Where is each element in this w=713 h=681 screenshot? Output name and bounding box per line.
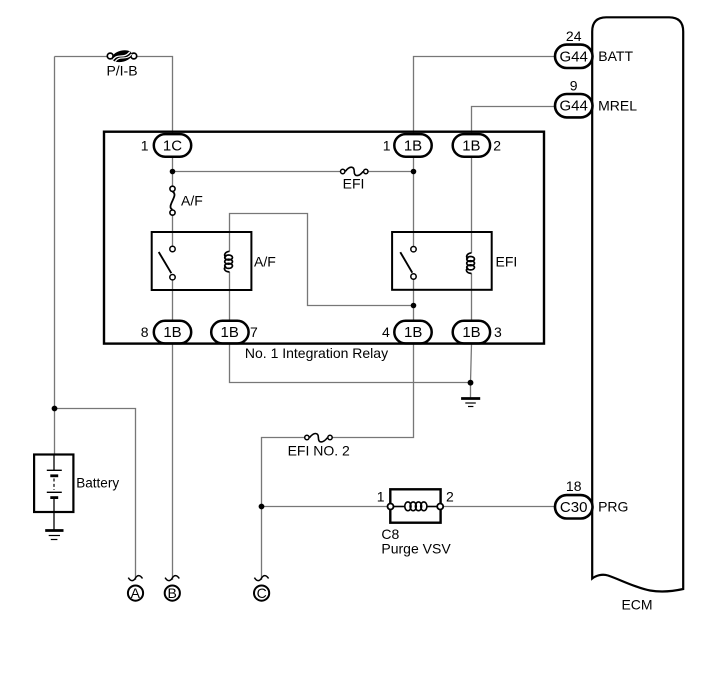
wire P/I-B horizontal feed bbox=[55, 56, 108, 58]
svg-text:9: 9 bbox=[570, 77, 578, 93]
wire pin 1B(7) down and right to ground junction bbox=[230, 344, 471, 383]
svg-text:Battery: Battery bbox=[76, 476, 119, 491]
wire pin 1B(4) down left through EFI NO.2 fuse region bbox=[262, 344, 414, 580]
pin 1B(3) bbox=[453, 321, 502, 344]
svg-text:ECM: ECM bbox=[621, 597, 652, 613]
svg-text:1B: 1B bbox=[404, 324, 422, 341]
svg-text:1: 1 bbox=[383, 138, 391, 154]
svg-text:G44: G44 bbox=[560, 48, 588, 65]
relay A/F coil bbox=[225, 251, 233, 272]
junction node at battery feed bbox=[52, 406, 58, 412]
ECM box bbox=[592, 17, 683, 591]
connector C30 pin 18 PRG bbox=[555, 478, 628, 519]
svg-text:3: 3 bbox=[494, 324, 502, 340]
pin 1B(1) bbox=[383, 134, 432, 157]
svg-text:EFI: EFI bbox=[496, 254, 518, 270]
wire A/F switch to pin 1B(8) bbox=[172, 280, 174, 322]
pin 1B(7) bbox=[211, 321, 258, 344]
wire EFI coil bottom to pin 1B(3) bbox=[471, 273, 473, 322]
svg-text:1B: 1B bbox=[221, 324, 239, 341]
pin 1B(4) bbox=[382, 321, 432, 344]
svg-text:8: 8 bbox=[141, 324, 149, 340]
wire pin 1B(8) down to connector B bbox=[172, 344, 174, 580]
junction node at connector C branch bbox=[259, 504, 265, 510]
wire A/F coil top jog to EFI switch junction bbox=[230, 214, 414, 306]
svg-text:C: C bbox=[257, 585, 267, 601]
ground right bbox=[461, 399, 480, 407]
svg-text:2: 2 bbox=[446, 489, 454, 505]
svg-text:18: 18 bbox=[566, 478, 582, 494]
break squiggle above connector C bbox=[254, 576, 268, 581]
svg-text:BATT: BATT bbox=[598, 48, 633, 64]
svg-text:EFI NO. 2: EFI NO. 2 bbox=[288, 443, 350, 459]
svg-text:1B: 1B bbox=[163, 324, 181, 341]
relay A/F box bbox=[152, 232, 252, 290]
svg-text:1: 1 bbox=[377, 489, 385, 505]
wire BATT from ECM to pin 1B(1) bbox=[414, 57, 556, 136]
wire junction down to A/F fuse bbox=[172, 172, 174, 186]
svg-text:A/F: A/F bbox=[181, 193, 203, 209]
svg-text:2: 2 bbox=[493, 138, 501, 154]
connector A bbox=[128, 585, 143, 601]
svg-text:1C: 1C bbox=[163, 138, 182, 155]
wire A/F coil bottom to pin 1B(7) bbox=[229, 272, 231, 322]
wire battery junction to connector A bbox=[55, 409, 136, 581]
ground battery bbox=[45, 531, 63, 540]
junction node on EFI switch output bbox=[411, 303, 417, 309]
connector C bbox=[254, 585, 269, 601]
purge VSV C8 bbox=[377, 489, 454, 523]
relay A/F switch bbox=[159, 246, 176, 280]
wire pin 1B(3) to ground bbox=[471, 344, 472, 398]
svg-text:1: 1 bbox=[141, 138, 149, 154]
junction node under 1C bbox=[170, 169, 176, 175]
pin 1C bbox=[141, 134, 191, 157]
wire pin 1B(1) down to EFI relay switch bbox=[413, 157, 415, 247]
svg-text:C30: C30 bbox=[560, 499, 588, 516]
svg-text:EFI: EFI bbox=[343, 176, 365, 192]
svg-text:MREL: MREL bbox=[598, 97, 637, 113]
relay EFI switch bbox=[400, 247, 416, 280]
wire MREL from ECM to pin 1B(2) bbox=[472, 107, 556, 136]
pin 1B(8) bbox=[141, 321, 191, 344]
svg-text:24: 24 bbox=[566, 28, 582, 44]
wire from fusible link to pin 1C bbox=[137, 57, 173, 136]
svg-text:A: A bbox=[131, 585, 141, 601]
svg-text:B: B bbox=[168, 585, 177, 601]
wire pin 1C to junction bbox=[172, 157, 174, 172]
connector B bbox=[165, 585, 180, 601]
break squiggle above connector B bbox=[165, 576, 179, 581]
relay EFI coil bbox=[467, 253, 475, 274]
connector G44 pin 9 MREL bbox=[555, 77, 637, 117]
relay EFI box bbox=[392, 232, 492, 290]
svg-text:1B: 1B bbox=[462, 138, 480, 155]
break squiggle above connector A bbox=[128, 576, 142, 581]
svg-text:P/I-B: P/I-B bbox=[106, 63, 137, 79]
fuse EFI bbox=[341, 167, 368, 175]
No. 1 Integration Relay box bbox=[104, 132, 544, 344]
pin 1B(2) bbox=[453, 134, 502, 157]
svg-text:7: 7 bbox=[250, 324, 258, 340]
wire pin 1B(2) to EFI relay coil bbox=[471, 157, 473, 253]
wire junction to EFI fuse to junction at 1B(1) line bbox=[173, 171, 414, 173]
wire left vertical from P/I-B feed down to battery bbox=[54, 57, 56, 455]
svg-text:No. 1 Integration Relay: No. 1 Integration Relay bbox=[245, 345, 388, 361]
wire PRG from junction to purge VSV to ECM bbox=[262, 506, 556, 508]
connector G44 pin 24 BATT bbox=[555, 28, 633, 68]
svg-text:G44: G44 bbox=[560, 98, 588, 115]
svg-text:Purge VSV: Purge VSV bbox=[381, 541, 451, 557]
fuse A/F bbox=[170, 186, 175, 215]
svg-text:4: 4 bbox=[382, 324, 390, 340]
fusible link P/I-B bbox=[107, 48, 136, 64]
junction node on 1B(1) line bbox=[411, 169, 417, 175]
wire EFI switch bottom to pin 1B(4) bbox=[413, 280, 415, 323]
svg-text:1B: 1B bbox=[462, 324, 480, 341]
svg-text:1B: 1B bbox=[404, 138, 422, 155]
battery bbox=[34, 455, 73, 531]
svg-text:A/F: A/F bbox=[254, 254, 276, 270]
fuse EFI NO. 2 bbox=[305, 434, 333, 442]
svg-text:PRG: PRG bbox=[598, 499, 628, 515]
wire A/F fuse to A/F relay switch bbox=[172, 216, 174, 246]
junction node at right ground bbox=[468, 380, 474, 386]
